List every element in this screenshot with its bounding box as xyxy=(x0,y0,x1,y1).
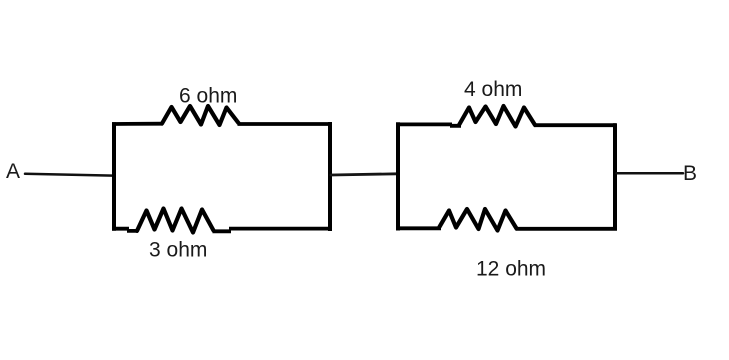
wire left-rect bottom segment left xyxy=(112,229,138,231)
wire right-rect top segment right xyxy=(534,123,616,127)
resistor R4 12 ohm zigzag xyxy=(440,209,517,231)
wire A lead xyxy=(25,174,113,176)
wire left-rect bottom segment right xyxy=(213,229,333,232)
svg-text:3 ohm: 3 ohm xyxy=(149,239,207,262)
resistor R1 6 ohm zigzag xyxy=(162,106,239,125)
wire left-rect top segment left xyxy=(112,122,163,126)
wire right-rect right edge xyxy=(613,123,617,230)
resistor R2 3 ohm zigzag xyxy=(137,209,214,233)
wire right-rect top segment left xyxy=(396,124,461,125)
wire left-rect top segment right xyxy=(238,122,332,126)
wire right-rect left edge xyxy=(396,122,400,230)
wire left-rect left edge xyxy=(112,122,116,231)
svg-text:B: B xyxy=(683,162,697,185)
svg-text:A: A xyxy=(6,160,20,183)
svg-text:6 ohm: 6 ohm xyxy=(179,85,237,108)
resistor R3 4 ohm zigzag xyxy=(459,106,535,127)
wire middle link xyxy=(331,174,397,175)
svg-text:12 ohm: 12 ohm xyxy=(476,258,546,281)
wire B lead xyxy=(617,172,684,175)
svg-text:4 ohm: 4 ohm xyxy=(464,78,522,101)
wire right-rect bottom segment right xyxy=(516,227,618,231)
wire left-rect right edge xyxy=(328,122,332,231)
wire right-rect bottom segment left xyxy=(396,226,441,230)
